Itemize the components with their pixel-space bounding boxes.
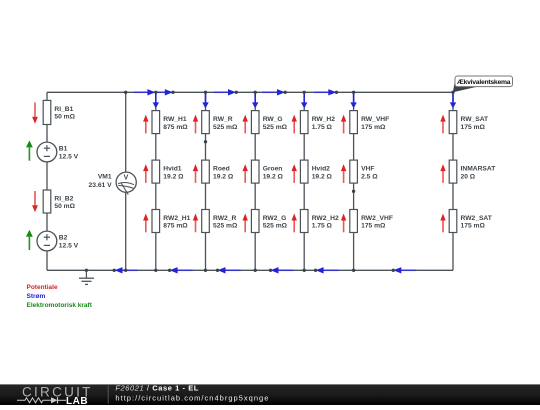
- svg-text:Groen: Groen: [263, 166, 283, 173]
- wire below INMARSAT: [452, 183, 454, 210]
- potential arrow VHF: [341, 164, 346, 183]
- resistor RI_B2: [43, 190, 51, 213]
- current arrow top rail 1: [134, 89, 155, 95]
- svg-text:Potentiale: Potentiale: [27, 284, 58, 291]
- svg-text:RW_H1: RW_H1: [163, 116, 187, 123]
- current arrow bottom rail 3: [218, 267, 241, 273]
- wire below RW_SAT: [452, 134, 454, 161]
- wire RI_B2 to B2: [46, 213, 48, 231]
- potential arrow Groen: [243, 164, 248, 183]
- wire RI_B1 to B1: [46, 125, 48, 143]
- label RW_R value: [213, 116, 238, 131]
- label VM1 value: [89, 174, 113, 189]
- wire branch RW2_G bottom stub: [254, 233, 256, 271]
- resistor Hvid2: [300, 160, 308, 183]
- svg-text:525 mΩ: 525 mΩ: [213, 124, 238, 131]
- svg-text:B1: B1: [59, 146, 68, 153]
- potential arrow RW_VHF: [341, 115, 346, 134]
- current arrow bottom rail 6: [393, 267, 416, 273]
- potential arrow RW2_R: [193, 214, 198, 233]
- svg-text:Roed: Roed: [213, 166, 230, 173]
- resistor RW_R: [202, 111, 210, 134]
- current arrow bottom rail 5: [316, 267, 339, 273]
- battery B2: [37, 231, 57, 251]
- current arrow into RW_R: [202, 93, 208, 108]
- wire below Hvid1: [155, 183, 157, 210]
- resistor RW_VHF: [350, 111, 358, 134]
- svg-text:19.2 Ω: 19.2 Ω: [312, 173, 333, 180]
- label Groen value: [263, 166, 284, 181]
- potential arrow RW2_H2: [292, 214, 297, 233]
- resistor Hvid1: [152, 160, 160, 183]
- svg-text:Strøm: Strøm: [27, 293, 46, 300]
- resistor RW2_SAT: [449, 210, 457, 233]
- svg-text:19.2 Ω: 19.2 Ω: [213, 173, 234, 180]
- footer bar: [0, 384, 540, 405]
- potential arrow Hvid2: [292, 164, 297, 183]
- label RW2_R value: [213, 215, 238, 230]
- current arrow into RW_H1: [153, 93, 159, 108]
- current arrow into RW_SAT: [450, 93, 456, 108]
- potential arrow RW2_H1: [143, 214, 148, 233]
- svg-text:LAB: LAB: [66, 396, 88, 405]
- svg-text:V: V: [124, 174, 129, 181]
- junction below VHF: [352, 190, 355, 193]
- wire branch RW2_VHF bottom stub: [353, 233, 355, 271]
- potential arrow INMARSAT: [440, 164, 445, 183]
- wire below VHF: [353, 183, 355, 210]
- svg-text:1.75 Ω: 1.75 Ω: [312, 223, 333, 230]
- label RW_H1 value: [163, 116, 188, 131]
- label RI_B1 value: [54, 106, 75, 121]
- annotation Ækvivalentskema: [453, 76, 513, 92]
- potential arrow RW_SAT: [440, 115, 445, 134]
- potential arrow RW2_VHF: [341, 214, 346, 233]
- svg-text:RI_B1: RI_B1: [54, 106, 73, 113]
- svg-text:RW_VHF: RW_VHF: [361, 116, 389, 123]
- current arrow top rail 3: [214, 89, 236, 95]
- current arrow top rail 2: [156, 89, 173, 95]
- potential arrow RW2_G: [243, 214, 248, 233]
- svg-text:RW2_SAT: RW2_SAT: [461, 215, 493, 222]
- resistor RW_G: [251, 111, 259, 134]
- potential arrow Hvid1: [143, 164, 148, 183]
- resistor RW2_H2: [300, 210, 308, 233]
- logo schematic line: [17, 397, 66, 403]
- wire branch RW_R top stub: [205, 92, 207, 111]
- resistor RW_H1: [152, 111, 160, 134]
- wire below RW_G: [254, 134, 256, 161]
- potential arrow RW_R: [193, 115, 198, 134]
- wire below Groen: [254, 183, 256, 210]
- potential arrow RW_G: [243, 115, 248, 134]
- wire branch RW_VHF top stub: [353, 92, 355, 111]
- voltmeter VM1: [116, 172, 136, 195]
- potential arrow RW_H1: [143, 115, 148, 134]
- resistor RW2_H1: [152, 210, 160, 233]
- battery B1: [37, 142, 57, 162]
- wire below RW_H1: [155, 134, 157, 161]
- label VHF value: [361, 166, 378, 181]
- svg-text:19.2 Ω: 19.2 Ω: [263, 173, 284, 180]
- svg-text:Hvid2: Hvid2: [312, 166, 330, 173]
- label INMARSAT value: [461, 166, 497, 181]
- svg-text:1.75 Ω: 1.75 Ω: [312, 124, 333, 131]
- current arrow into RW_H2: [301, 93, 307, 108]
- svg-text:23.61 V: 23.61 V: [89, 182, 113, 189]
- svg-text:RW_R: RW_R: [213, 116, 233, 123]
- svg-text:http://circuitlab.com/cn4brgp5: http://circuitlab.com/cn4brgp5xqnge: [115, 394, 268, 403]
- junction below RW_R: [204, 140, 207, 143]
- wire below RW_H2: [303, 134, 305, 161]
- wire voltmeter bottom: [125, 192, 127, 270]
- svg-text:RI_B2: RI_B2: [54, 196, 73, 203]
- current arrow into RW_G: [252, 93, 258, 108]
- svg-text:Hvid1: Hvid1: [163, 166, 181, 173]
- label Hvid2 value: [312, 166, 333, 181]
- bottom rail junctions: [85, 269, 395, 272]
- svg-text:B2: B2: [59, 235, 68, 242]
- emf arrow B1: [26, 140, 33, 160]
- wire below RW_VHF: [353, 134, 355, 161]
- label RW_H2 value: [312, 116, 336, 131]
- resistor INMARSAT: [449, 160, 457, 183]
- svg-text:VM1: VM1: [98, 174, 112, 181]
- svg-text:175 mΩ: 175 mΩ: [461, 223, 486, 230]
- label RI_B2 value: [54, 196, 75, 211]
- svg-text:RW2_R: RW2_R: [213, 215, 236, 222]
- wire branch RW_H2 top stub: [303, 92, 305, 111]
- label RW2_H1 value: [163, 215, 190, 230]
- potential arrow RI_B2: [32, 191, 38, 212]
- emf arrow B2: [26, 230, 33, 250]
- svg-text:RW_H2: RW_H2: [312, 116, 336, 123]
- wire bottom rail: [47, 269, 453, 271]
- wire below RW_R: [205, 134, 207, 161]
- potential arrow RI_B1: [32, 102, 38, 123]
- current arrow bottom rail 1: [115, 267, 138, 273]
- label B2 value: [59, 235, 79, 250]
- current arrow into RW_VHF: [350, 93, 356, 108]
- label RW2_G value: [263, 215, 288, 230]
- svg-text:875 mΩ: 875 mΩ: [163, 223, 188, 230]
- current arrow top rail 5: [314, 89, 336, 95]
- potential arrow RW2_SAT: [440, 214, 445, 233]
- svg-text:20 Ω: 20 Ω: [461, 173, 476, 180]
- svg-text:50 mΩ: 50 mΩ: [54, 114, 75, 121]
- label B1 value: [59, 146, 79, 161]
- svg-text:RW_SAT: RW_SAT: [461, 116, 490, 123]
- label RW_G value: [263, 116, 288, 131]
- wire below Hvid2: [303, 183, 305, 210]
- label RW2_H2 value: [312, 215, 339, 230]
- svg-text:175 mΩ: 175 mΩ: [361, 124, 386, 131]
- footer separator: [107, 386, 109, 404]
- label Hvid1 value: [163, 166, 184, 181]
- svg-text:175 mΩ: 175 mΩ: [361, 223, 386, 230]
- svg-text:RW2_VHF: RW2_VHF: [361, 215, 393, 222]
- label RW2_SAT value: [461, 215, 493, 230]
- wire voltmeter top: [125, 92, 127, 172]
- resistor VHF: [350, 160, 358, 183]
- resistor RW2_R: [202, 210, 210, 233]
- svg-text:875 mΩ: 875 mΩ: [163, 124, 188, 131]
- top rail junctions: [124, 91, 455, 94]
- wire branch RW_SAT top stub: [452, 92, 454, 111]
- resistor RW2_G: [251, 210, 259, 233]
- svg-text:INMARSAT: INMARSAT: [461, 166, 497, 173]
- wire branch RW2_R bottom stub: [205, 233, 207, 271]
- wire below Roed: [205, 183, 207, 210]
- svg-text:RW_G: RW_G: [263, 116, 283, 123]
- svg-text:19.2 Ω: 19.2 Ω: [163, 173, 184, 180]
- potential arrow Roed: [193, 164, 198, 183]
- svg-text:F26021 / Case 1 - EL: F26021 / Case 1 - EL: [115, 384, 198, 393]
- resistor RW_SAT: [449, 111, 457, 134]
- wire branch RW2_H1 bottom stub: [155, 233, 157, 271]
- label RW_VHF value: [361, 116, 389, 131]
- svg-text:12.5 V: 12.5 V: [59, 242, 79, 249]
- wire branch RW_G top stub: [254, 92, 256, 111]
- resistor RW2_VHF: [350, 210, 358, 233]
- wire branch RW2_H2 bottom stub: [303, 233, 305, 271]
- wire branch RW_H1 top stub: [155, 92, 157, 111]
- ground: [79, 270, 94, 284]
- wire B2 to bottom rail: [46, 251, 48, 270]
- resistor Groen: [251, 160, 259, 183]
- svg-text:RW2_H2: RW2_H2: [312, 215, 339, 222]
- label RW2_VHF value: [361, 215, 393, 230]
- wire B1 to RI_B2: [46, 162, 48, 190]
- label RW_SAT value: [461, 116, 490, 131]
- svg-text:12.5 V: 12.5 V: [59, 153, 79, 160]
- wire branch RW2_SAT bottom stub: [452, 233, 454, 271]
- potential arrow RW_H2: [292, 115, 297, 134]
- wire top rail: [47, 91, 453, 93]
- svg-text:Ækvivalentskema: Ækvivalentskema: [457, 79, 511, 86]
- svg-text:525 mΩ: 525 mΩ: [263, 223, 288, 230]
- svg-text:525 mΩ: 525 mΩ: [263, 124, 288, 131]
- svg-text:RW2_G: RW2_G: [263, 215, 287, 222]
- resistor Roed: [202, 160, 210, 183]
- svg-text:2.5 Ω: 2.5 Ω: [361, 173, 378, 180]
- svg-text:50 mΩ: 50 mΩ: [54, 203, 75, 210]
- current arrow bottom rail 4: [271, 267, 294, 273]
- svg-text:Elektromotorisk kraft: Elektromotorisk kraft: [27, 302, 93, 309]
- wire left branch top stub: [46, 92, 48, 101]
- svg-text:175 mΩ: 175 mΩ: [461, 124, 486, 131]
- current arrow bottom rail 2: [170, 267, 193, 273]
- current arrow top rail 4: [262, 89, 285, 95]
- svg-text:VHF: VHF: [361, 166, 374, 173]
- resistor RW_H2: [300, 111, 308, 134]
- resistor RI_B1: [43, 100, 51, 124]
- svg-text:525 mΩ: 525 mΩ: [213, 223, 238, 230]
- svg-text:RW2_H1: RW2_H1: [163, 215, 190, 222]
- label Roed value: [213, 166, 234, 181]
